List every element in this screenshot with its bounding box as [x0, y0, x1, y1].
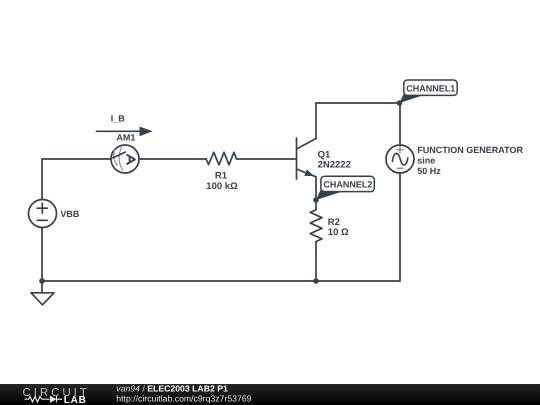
label Q1: [318, 150, 331, 161]
ground: [31, 281, 54, 305]
resistor R1: [206, 152, 236, 165]
label I_B: [111, 113, 126, 123]
wire top rail: [316, 102, 400, 104]
wire function generator to bottom rail: [399, 173, 401, 281]
svg-text:100 kΩ: 100 kΩ: [206, 181, 238, 192]
junction node at top rail: [397, 100, 403, 106]
label FUNCTION GENERATOR: [417, 145, 523, 155]
junction node R2 bottom: [313, 278, 319, 284]
wire node to function generator: [399, 103, 401, 145]
label R1: [215, 171, 228, 182]
wire R1 to Q1 base: [236, 158, 296, 160]
svg-text:sine: sine: [417, 155, 435, 165]
svg-text:CHANNEL1: CHANNEL1: [406, 83, 455, 93]
node CHANNEL2 flag: [316, 176, 374, 200]
svg-text:VBB: VBB: [60, 209, 80, 219]
svg-text:AM1: AM1: [116, 132, 135, 142]
label AM1: [116, 132, 135, 142]
svg-text:CHANNEL2: CHANNEL2: [323, 180, 372, 190]
svg-text:50 Hz: 50 Hz: [417, 166, 441, 176]
svg-text:http://circuitlab.com/c9rq3z7r: http://circuitlab.com/c9rq3z7r53769: [116, 393, 251, 403]
transistor Q1: [297, 138, 317, 179]
url: http://circuitlab.com/c9rq3z7r53769: [116, 393, 251, 403]
current arrow I_B: [97, 127, 153, 137]
voltage source VBB: [29, 200, 57, 228]
svg-text:LAB: LAB: [64, 395, 86, 405]
wire collector up: [315, 103, 317, 139]
wire R2 to bottom rail: [315, 242, 317, 281]
wire bottom rail: [42, 280, 400, 282]
ammeter A glyph: [127, 155, 135, 164]
svg-text:10 Ω: 10 Ω: [328, 227, 349, 238]
wire emitter to R2: [315, 177, 317, 210]
footer bar: [0, 384, 540, 405]
junction node at emitter: [313, 197, 319, 203]
label CHANNEL2: [323, 180, 372, 190]
junction node at ground: [39, 278, 45, 284]
CircuitLab logo: [23, 387, 90, 405]
svg-text:FUNCTION GENERATOR: FUNCTION GENERATOR: [417, 145, 523, 155]
value 100 kΩ: [206, 181, 238, 192]
node CHANNEL1 flag: [400, 80, 458, 103]
label R2: [328, 217, 340, 228]
wire from VBB top to ammeter: [42, 159, 111, 199]
label CHANNEL1: [406, 83, 455, 93]
resistor R2: [310, 210, 322, 242]
value 2N2222: [318, 160, 351, 171]
label VBB: [60, 209, 80, 219]
value 50 Hz: [417, 166, 441, 176]
svg-text:van94 / ELEC2003 LAB2 P1: van94 / ELEC2003 LAB2 P1: [116, 383, 228, 393]
svg-text:2N2222: 2N2222: [318, 160, 351, 171]
value 10 Ω: [328, 227, 349, 238]
value sine: [417, 155, 435, 165]
svg-text:I_B: I_B: [111, 113, 126, 123]
ammeter AM1: [111, 145, 139, 173]
title: van94 / ELEC2003 LAB2 P1: [116, 383, 228, 393]
function generator source: [386, 145, 414, 173]
wire ammeter to R1: [139, 158, 206, 160]
wire VBB to ground junction: [41, 228, 43, 282]
